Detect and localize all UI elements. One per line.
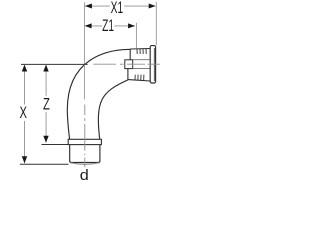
right socket press flange bbox=[150, 46, 155, 83]
label X1 bbox=[110, 1, 124, 12]
arrowhead Z bottom bbox=[43, 136, 48, 143]
label X bbox=[19, 105, 30, 121]
bottom socket collar bead bbox=[68, 139, 101, 144]
arrowhead Z1 right bbox=[128, 23, 135, 28]
horizontal reference line at bottom socket mouth (for X) bbox=[20, 163, 69, 165]
dimension line Z1 bbox=[85, 25, 135, 27]
extension line below Z arrow (insertion depth plane) bbox=[42, 144, 69, 146]
arrowhead X1 right bbox=[149, 4, 156, 9]
arrowhead X bottom bbox=[22, 156, 27, 163]
arrowhead Z top bbox=[43, 65, 48, 72]
right socket entry lip bbox=[125, 60, 133, 69]
bottom socket left wall bbox=[69, 145, 71, 162]
right socket knurling ribs bottom bbox=[135, 75, 144, 81]
bottom socket right wall bbox=[99, 145, 101, 162]
dimension line X1 bbox=[85, 5, 156, 7]
arrowhead X1 left bbox=[85, 4, 92, 9]
label Z bbox=[41, 96, 52, 112]
vertical centerline of bottom socket (dash-dot segments) bbox=[84, 105, 86, 168]
elbow outer bend curve bbox=[67, 49, 130, 139]
right socket bottom edge bbox=[128, 80, 150, 81]
right socket top edge with step bbox=[130, 48, 150, 51]
dimension line X (left, vertical) bbox=[24, 65, 26, 164]
svg-text:Z: Z bbox=[43, 94, 50, 113]
elbow inner bend curve bbox=[98, 80, 128, 139]
pipe elbow body (white silhouette fill) bbox=[67, 46, 155, 163]
right socket knurling ribs top bbox=[137, 49, 146, 54]
extension line right of X1 (socket mouth) bbox=[155, 2, 157, 45]
svg-text:Z1: Z1 bbox=[102, 17, 114, 35]
right socket internal line lower bbox=[133, 68, 151, 70]
right socket left face upper bbox=[129, 49, 131, 60]
arrowhead X top bbox=[22, 65, 27, 72]
bottom socket mouth back rim ellipse bbox=[70, 163, 99, 165]
label Z1 bbox=[102, 21, 114, 32]
right socket internal line upper bbox=[133, 59, 151, 61]
svg-text:X: X bbox=[19, 103, 27, 122]
right socket left face lower bbox=[127, 69, 129, 80]
extension line left of X1/Z1 (vertical gray at bend axis) bbox=[83, 2, 85, 99]
dimension line Z (left inner, vertical) bbox=[45, 65, 47, 143]
extension line right of Z1 (insertion depth) bbox=[135, 23, 137, 49]
bottom socket mouth front rim bbox=[70, 161, 100, 163]
horizontal centerline of right socket (dash-dot segments) bbox=[93, 63, 160, 65]
flange right rim inner line bbox=[153, 48, 155, 81]
arrowhead Z1 left bbox=[85, 23, 92, 28]
horizontal reference line at elbow axis (for X and Z) bbox=[21, 63, 88, 65]
svg-text:X1: X1 bbox=[111, 0, 124, 17]
svg-text:d: d bbox=[80, 167, 89, 180]
